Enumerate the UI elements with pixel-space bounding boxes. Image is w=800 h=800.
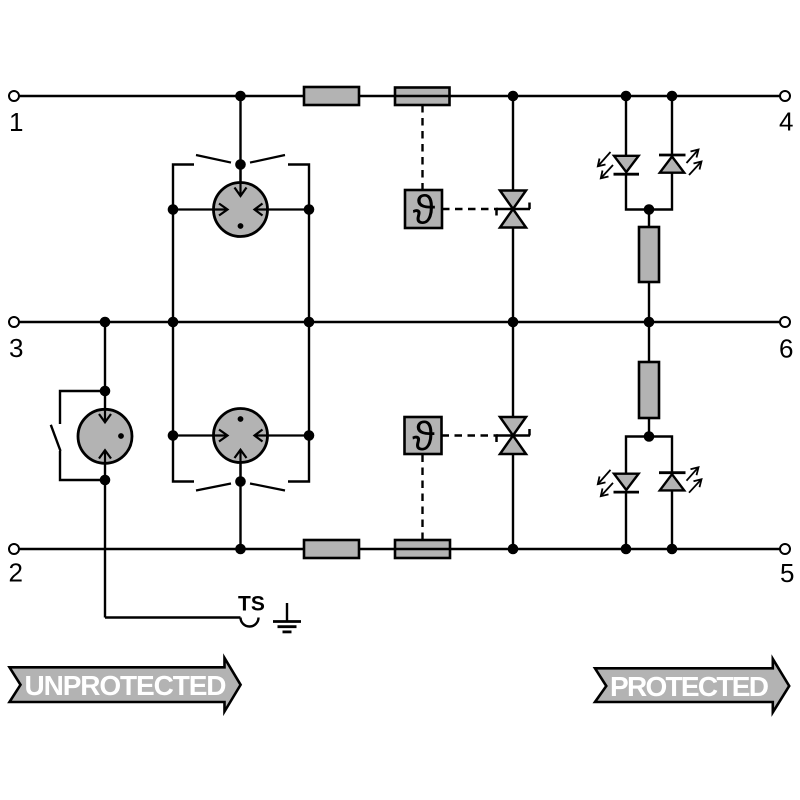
wire GDT1 center stem [239,96,241,196]
G1 disconnect wing right [250,155,285,163]
D4 emission arrows [687,150,702,176]
G3 bottom electrode arrow [99,450,111,463]
wire LED branch left upper [625,96,627,156]
wire middle line 3-6 [20,321,781,323]
node dot line3 at left bracket [168,317,179,328]
wire top line 1-4 [20,95,781,97]
G1 disconnect wing left [196,155,231,163]
terminal 3 [9,317,19,327]
suppressor diode D2 (bidirectional TVS) [496,417,530,454]
svg-text:PROTECTED: PROTECTED [610,671,769,702]
LED D5 (down, lower left) [614,474,640,492]
node dot line2 at TVS [508,544,519,555]
svg-text:ϑ: ϑ [412,413,435,459]
G2 right electrode arrow [255,430,310,442]
switch S1 parallel to G3 [51,391,105,480]
terminal 6 [780,317,790,327]
node dot line1 at LED right [667,91,678,102]
G2 disconnect wing left [196,484,231,491]
wire G2 left bracket [173,322,194,482]
node dot G2 left [168,430,179,441]
node dot G2 right [304,430,315,441]
wire G1 right bracket [288,165,309,323]
PROTECTED banner arrow [595,659,789,712]
node dot line3 at G3 [100,317,111,328]
wire TVS branch bottom (line 3 to line 2) [512,322,514,549]
G2 disconnect wing right [250,484,285,491]
node dot line2 at LED left [621,544,632,555]
node dot G2 bottom [235,476,246,487]
node dot line3 at right bracket [304,317,315,328]
svg-text:3: 3 [9,333,23,363]
terminal 2 [9,544,19,554]
svg-text:UNPROTECTED: UNPROTECTED [25,670,227,701]
wire dashed link U1 to D1 [442,208,498,210]
node dot lower LED join [644,431,655,442]
node dot line1 at TVS [508,91,519,102]
G2 inner dot [238,416,244,422]
gas discharge tube G3 (2-electrode, left) [78,409,132,463]
node dot line3 at TVS [508,317,519,328]
fuse F1 thermal disconnect top line [395,88,450,106]
terminal 4 [780,91,790,101]
node dot G1 left [168,204,179,215]
wire G1 left bracket [173,165,194,323]
D3 emission arrows [598,152,613,178]
wire line3 to R4 [648,322,650,362]
D5 emission arrows [598,470,613,496]
G1 left electrode arrow [173,204,228,216]
LED D4 (up, upper right) [659,155,686,173]
terminal 1 [9,91,19,101]
wire LED branch right upper [671,96,673,155]
G1 right electrode arrow [255,204,310,216]
wire dashed link F2 to thermal sensor [421,455,423,541]
svg-text:6: 6 [779,334,793,364]
wire GDT2 center stem [239,450,241,549]
wire R4 to lower LED node [648,418,650,437]
LED D3 (down, upper left) [614,156,640,174]
node dot upper LED join [644,204,655,215]
resistor R3 (right, upper) [639,227,659,282]
node dot G1 right [304,204,315,215]
wire node to R3 [648,210,650,228]
LED D6 (up, lower right) [659,473,686,491]
UNPROTECTED banner arrow [10,658,241,712]
wire bottom line 2-5 [20,548,781,550]
wire TS horizontal [105,616,241,618]
wire G2 right bracket [288,322,309,482]
node dot line2 at LED right [667,544,678,555]
G1 inner dot [238,223,244,229]
G2 left electrode arrow [173,430,228,442]
D6 emission arrows [687,467,702,493]
wire lower LED joiner [626,437,672,474]
wire GDT3 stem lower to TS [104,463,106,618]
wire dashed link U2 to D2 [442,434,499,436]
resistor R2 bottom line [304,540,359,558]
wire GDT3 stem upper [104,322,106,410]
TS hook contact [241,618,259,627]
wire lower LEDs to line 2 [625,492,627,549]
node dot line2 at GDT stem [235,544,246,555]
svg-text:ϑ: ϑ [413,187,436,233]
G3 top electrode arrow [99,409,111,422]
fuse F2 thermal disconnect bottom line [395,540,450,558]
thermal sensor U2 (theta box) [405,413,442,459]
svg-text:1: 1 [9,107,23,137]
G1 top electrode arrow [235,168,247,196]
wire R3 to line 3 [648,282,650,322]
node dot G1 top [235,159,246,170]
svg-text:2: 2 [9,558,23,588]
resistor R1 top line [304,87,359,105]
node dot G3 top [100,386,111,397]
resistor R4 (right, lower) [639,362,659,418]
svg-text:4: 4 [779,107,793,137]
gas discharge tube G2 (3-electrode, lower) [214,409,268,463]
G2 bottom electrode arrow [235,450,247,478]
suppressor diode D1 (bidirectional TVS) [496,191,530,228]
node dot line1 at LED left [621,91,632,102]
svg-text:5: 5 [780,558,794,588]
terminal 5 [780,544,790,554]
G3 inner dot [118,433,124,439]
thermal sensor U1 (theta box) [405,187,442,233]
gas discharge tube G1 (3-electrode, upper) [214,183,268,237]
wire dashed link F1 to thermal sensor [421,105,423,190]
svg-text:TS: TS [238,593,265,616]
wire TVS branch top (node on line 1 to line 3) [512,96,514,322]
node dot line3 at resistor chain [644,317,655,328]
node dot G3 bottom [100,475,111,486]
ground symbol [273,603,301,632]
node dot line1 at GDT stem [235,91,246,102]
wire upper LED joiner [626,173,672,210]
